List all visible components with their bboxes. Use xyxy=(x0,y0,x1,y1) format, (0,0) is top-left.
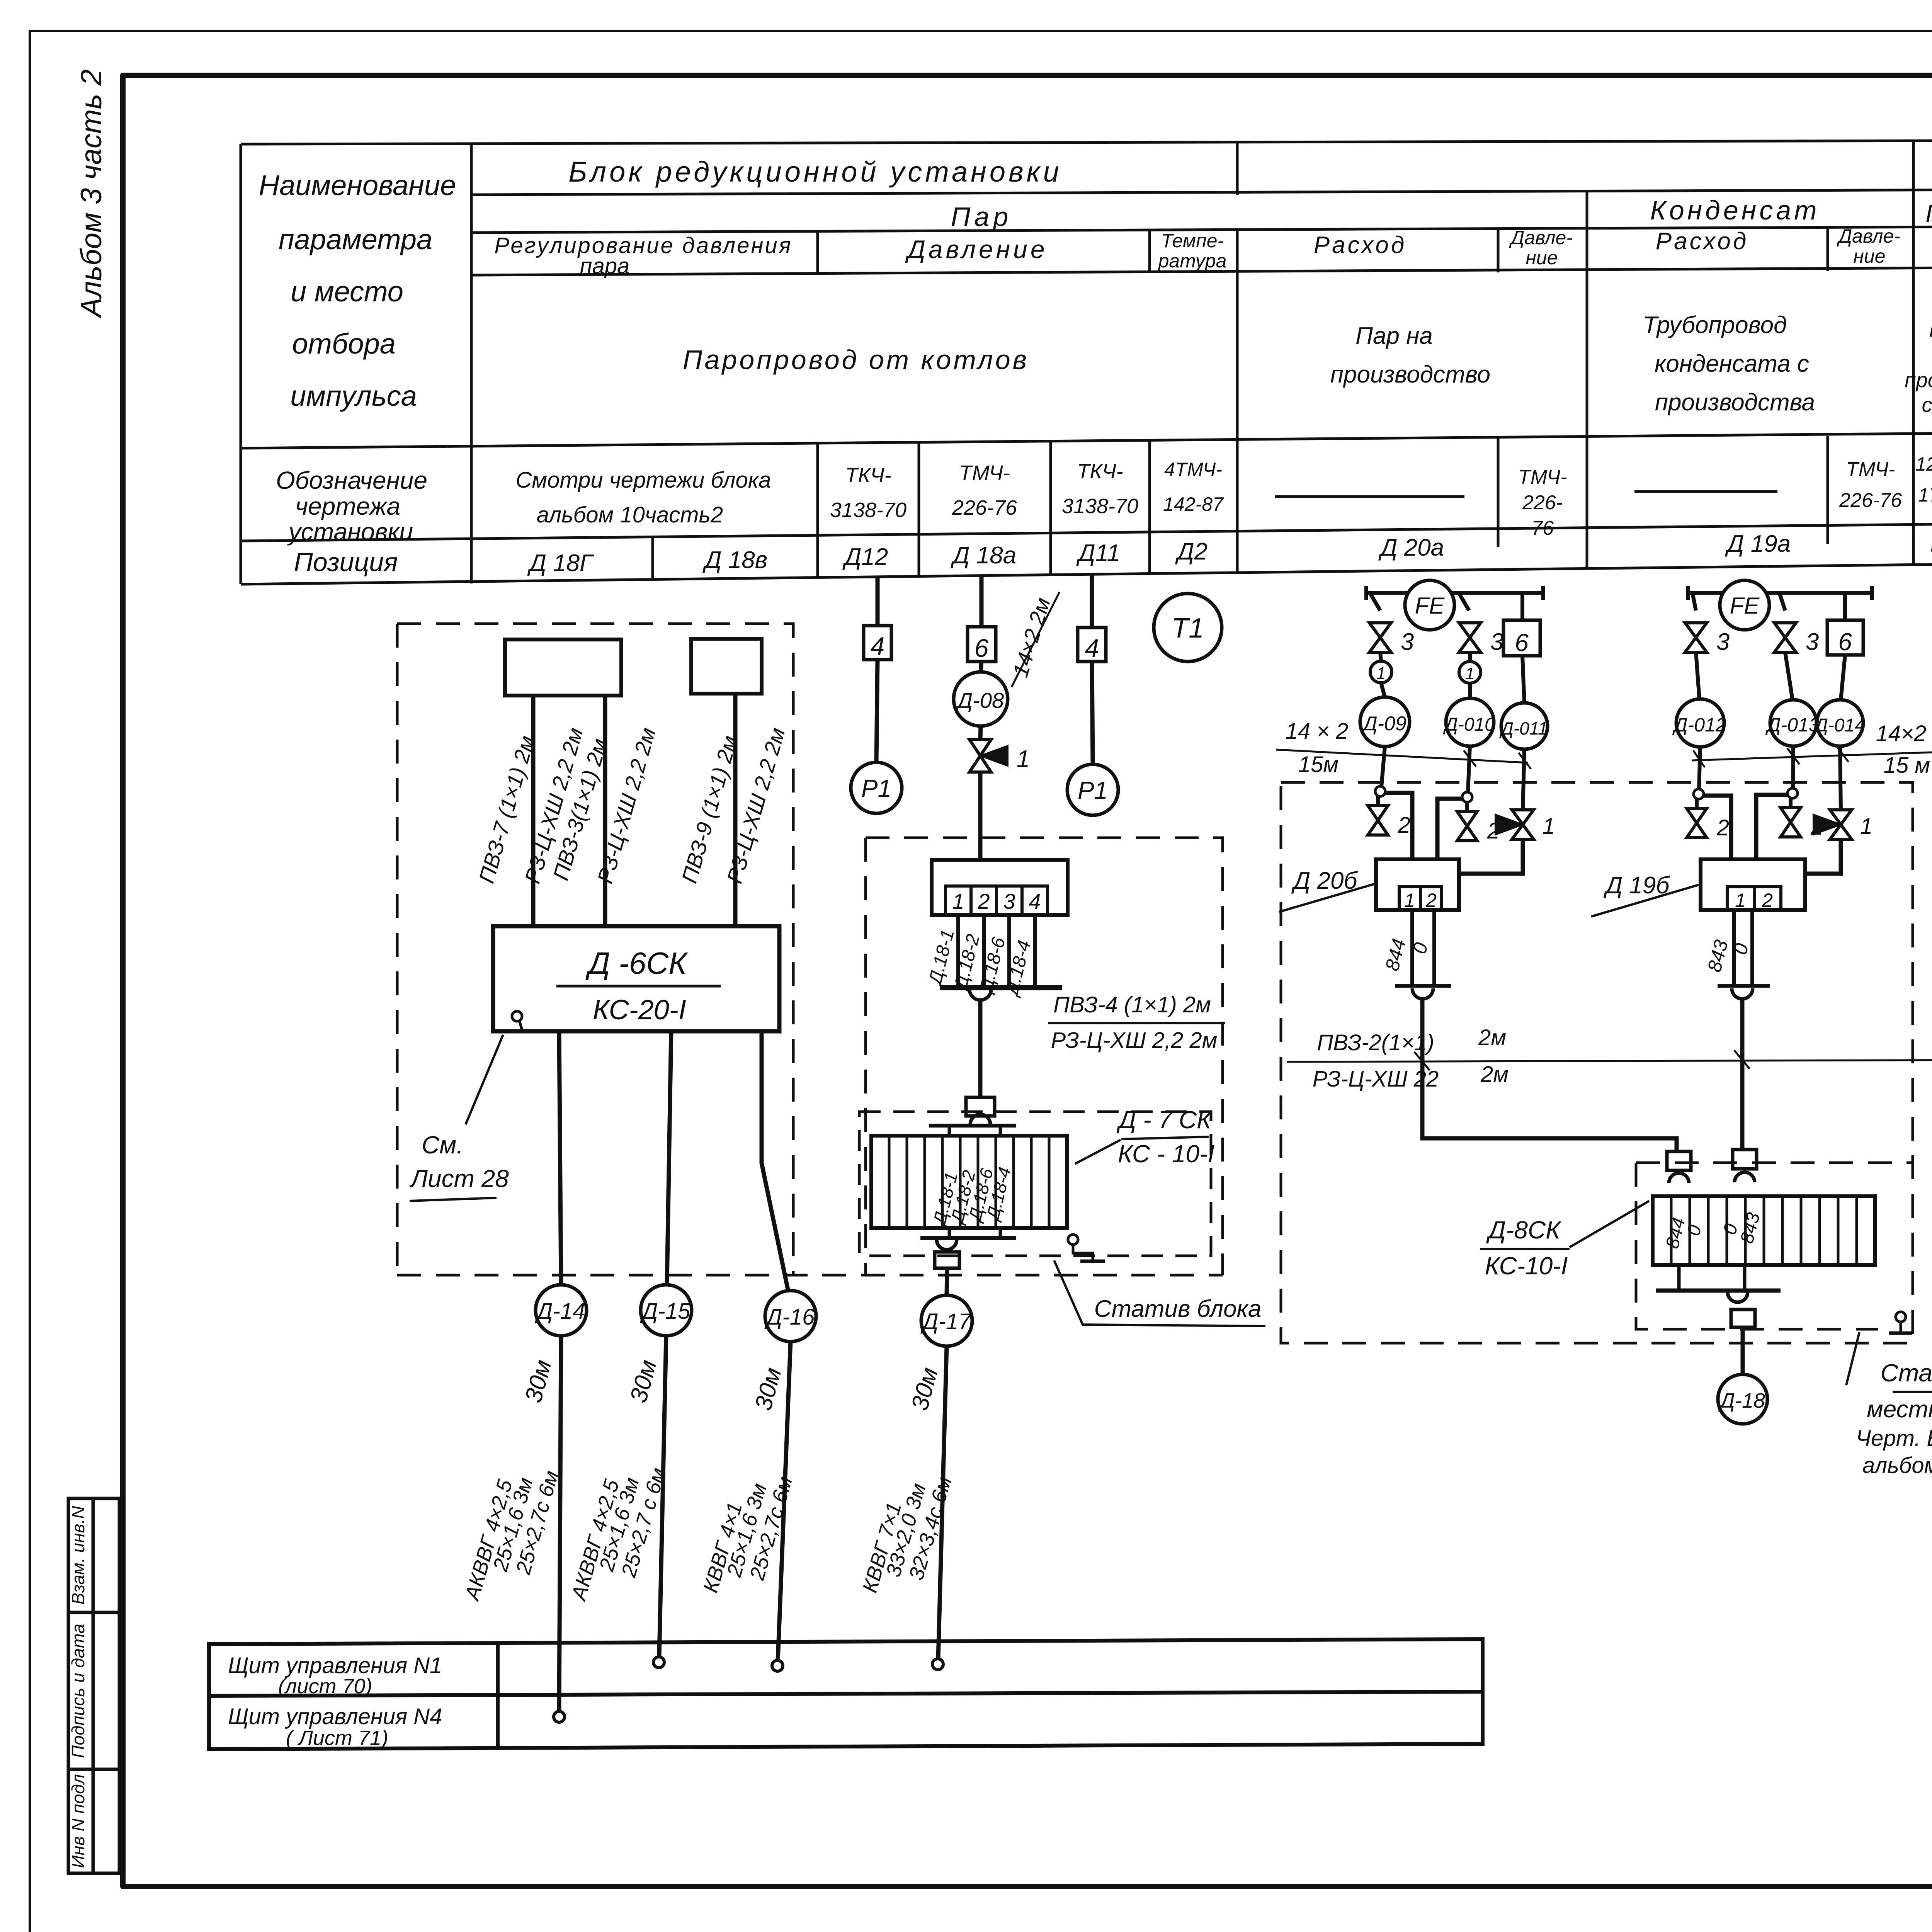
svg-text:2: 2 xyxy=(1716,815,1729,840)
sensor box B xyxy=(691,639,762,694)
valve 2 (Д-010) xyxy=(1465,802,1469,811)
svg-text:Статив: Статив xyxy=(1881,1359,1932,1387)
svg-text:Давле-: Давле- xyxy=(1509,227,1573,248)
svg-text:Д 20б: Д 20б xyxy=(1291,867,1358,894)
impulse tube line (left) xyxy=(1276,750,1528,763)
wire comb to Д-18 xyxy=(1741,1327,1745,1374)
svg-text:Наименование: Наименование xyxy=(259,169,456,201)
wire comb to Д-17 xyxy=(947,1268,947,1295)
svg-text:226-76: 226-76 xyxy=(952,496,1017,519)
wire bar to comb connector xyxy=(978,1000,983,1097)
grounding circle of Д-6СК xyxy=(512,1011,522,1021)
wire to Д-013 xyxy=(1785,652,1793,700)
instrument circle Д-15 xyxy=(641,1285,692,1336)
impulse header bar (Д19а) xyxy=(1688,586,1872,600)
svg-text:КС-10-I: КС-10-I xyxy=(1485,1252,1568,1280)
svg-text:Черт. Б12В715000: Черт. Б12В715000 xyxy=(1856,1426,1932,1451)
svg-text:1: 1 xyxy=(1543,814,1555,839)
junction dot Д-09 line xyxy=(1381,747,1385,787)
svg-text:Регулирование давления: Регулирование давления xyxy=(494,233,792,258)
svg-text:14×2: 14×2 xyxy=(1876,721,1927,746)
svg-text:КС - 10-I: КС - 10-I xyxy=(1118,1140,1215,1168)
junction box 6 (Д20а) xyxy=(1503,620,1540,656)
grounding of Д-8СК xyxy=(1896,1312,1906,1322)
svg-text:производства: производства xyxy=(1655,389,1815,416)
wire Д-6СК to Д-14 xyxy=(559,1031,561,1284)
svg-text:Д-8СК: Д-8СК xyxy=(1486,1216,1561,1244)
wire valve to circle 1 (2) xyxy=(1468,652,1472,662)
junction dot Д-012 xyxy=(1699,747,1700,789)
svg-text:Д11: Д11 xyxy=(1076,540,1120,566)
svg-text:Д -6СК: Д -6СК xyxy=(585,946,688,980)
wire Д-14 to panel N4 xyxy=(559,1336,561,1711)
svg-text:ТКЧ-: ТКЧ- xyxy=(845,464,891,487)
wire box A pin1 to Д-6СК xyxy=(531,696,536,926)
svg-text:226-76: 226-76 xyxy=(1839,489,1902,512)
svg-text:чертежа: чертежа xyxy=(295,492,400,520)
svg-text:Статив блока: Статив блока xyxy=(1094,1296,1262,1322)
valve 1 (three-way after Д-08) xyxy=(969,740,1008,772)
svg-text:Конденсат: Конденсат xyxy=(1650,195,1820,225)
gland bar Д19б xyxy=(1718,984,1770,988)
panel row divider xyxy=(209,1692,1483,1696)
svg-text:3138-70: 3138-70 xyxy=(1062,495,1138,518)
junction box Д19б xyxy=(1701,859,1805,910)
svg-text:3: 3 xyxy=(1490,629,1503,655)
svg-text:15 м: 15 м xyxy=(1884,753,1930,778)
svg-text:параметра: параметра xyxy=(279,223,432,255)
bottom dome xyxy=(1728,1292,1748,1302)
long thin impulse line to Д6 xyxy=(1287,1060,1932,1062)
svg-text:Лист 28: Лист 28 xyxy=(409,1165,509,1192)
junction dot Д-013 xyxy=(1793,746,1793,788)
svg-text:ПВЗ-2(1×1): ПВЗ-2(1×1) xyxy=(1317,1030,1434,1055)
grounding of comb Д-7СК xyxy=(1068,1235,1078,1245)
svg-text:Пар: Пар xyxy=(951,202,1012,232)
four wires from terminals to collector bar xyxy=(958,915,1035,986)
comb connector square xyxy=(966,1097,995,1116)
instrument circle Д-18 xyxy=(1718,1374,1767,1424)
left margin stamp boxes xyxy=(68,1498,119,1873)
svg-text:ТМЧ-: ТМЧ- xyxy=(1846,458,1895,481)
svg-text:Р1: Р1 xyxy=(861,774,891,802)
svg-text:альбом 13: альбом 13 xyxy=(1862,1453,1932,1478)
svg-text:См.: См. xyxy=(422,1131,463,1159)
svg-text:Трубопровод: Трубопровод xyxy=(1643,312,1787,338)
dash in Д19а column xyxy=(1634,490,1777,493)
svg-text:2м: 2м xyxy=(1478,1025,1506,1050)
svg-text:1: 1 xyxy=(952,889,964,913)
instrument circle Д-011 xyxy=(1501,703,1548,749)
svg-text:4: 4 xyxy=(871,632,885,660)
wire valve to terminal box xyxy=(978,772,983,860)
svg-text:Расход: Расход xyxy=(1314,232,1407,259)
row5 dash cell lines xyxy=(1275,492,1777,497)
svg-text:Д-09: Д-09 xyxy=(1361,713,1406,735)
svg-text:4: 4 xyxy=(1029,889,1041,913)
svg-text:2м: 2м xyxy=(1480,1062,1509,1087)
comb body Д-8СК xyxy=(1653,1196,1875,1265)
wire Д-15 to panel N1 xyxy=(659,1336,666,1657)
branch wire Д-09 to Д20б xyxy=(1385,793,1412,859)
comb connector dome xyxy=(970,1114,990,1124)
svg-text:РЗ-Ц-ХШ 2,2 2м: РЗ-Ц-ХШ 2,2 2м xyxy=(1051,1028,1218,1053)
svg-text:4ТМЧ-: 4ТМЧ- xyxy=(1164,459,1222,480)
svg-text:Д 19а: Д 19а xyxy=(1725,531,1791,557)
instrument circle Д-17 xyxy=(921,1295,972,1346)
inner dashed box around Д-7СК xyxy=(859,1112,1211,1256)
wires Д19б to gland xyxy=(1734,910,1752,985)
svg-text:FE: FE xyxy=(1415,593,1445,619)
wire Д-6СК to Д-16 xyxy=(762,1031,788,1291)
svg-text:Д-013: Д-013 xyxy=(1765,714,1819,736)
wire box B to Д-6СК xyxy=(733,694,738,926)
svg-text:Давление: Давление xyxy=(905,235,1048,264)
small circle 1 xyxy=(1370,661,1392,683)
svg-text:отбора: отбора xyxy=(292,328,396,360)
wire from table Д18а xyxy=(980,577,984,627)
svg-text:Взам. инв.N: Взам. инв.N xyxy=(68,1506,88,1605)
svg-text:Щит управления N4: Щит управления N4 xyxy=(228,1704,442,1729)
device Д-6СК box xyxy=(493,926,779,1031)
svg-text:пара: пара xyxy=(580,253,630,279)
comb top rail xyxy=(929,1124,1016,1128)
svg-text:Д 18Г: Д 18Г xyxy=(527,550,594,577)
wire bar to valve3 (left) xyxy=(1370,593,1380,611)
svg-text:Т1: Т1 xyxy=(1172,613,1204,644)
svg-text:Д-08: Д-08 xyxy=(955,688,1004,713)
svg-text:1: 1 xyxy=(1017,746,1030,772)
wire valve to circle 1 xyxy=(1380,652,1381,661)
svg-text:2: 2 xyxy=(977,889,990,913)
svg-text:Инв N подл: Инв N подл xyxy=(68,1774,88,1868)
collector bar xyxy=(940,985,1062,990)
svg-text:Пар: Пар xyxy=(1929,318,1932,342)
wires Д20б to gland xyxy=(1412,910,1434,985)
svg-text:15м: 15м xyxy=(1298,752,1338,777)
sensor box A (top left) xyxy=(505,639,621,696)
junction dot Д-010 line xyxy=(1468,746,1470,792)
branch Д-012 to Д19б xyxy=(1704,796,1731,859)
wire Д-011 down xyxy=(1523,749,1524,810)
comb bottom rail xyxy=(1656,1289,1781,1293)
wire bar to box 6 xyxy=(1520,593,1524,620)
instrument circle Р1 (left) xyxy=(851,762,902,813)
dashed enclosure of reduction unit block xyxy=(397,624,1223,1275)
svg-text:Д-16: Д-16 xyxy=(764,1304,815,1330)
three-way valve 1 (Д-014) xyxy=(1813,810,1852,839)
svg-text:альбом 10часть2: альбом 10часть2 xyxy=(537,502,723,527)
svg-text:142-87: 142-87 xyxy=(1163,493,1224,515)
svg-text:1: 1 xyxy=(1465,664,1475,683)
three-way valve 1 (Д-011) xyxy=(1495,810,1534,839)
svg-text:(лист 70): (лист 70) xyxy=(278,1675,372,1698)
svg-text:Обозначение: Обозначение xyxy=(276,466,427,494)
label Статив местный I xyxy=(1846,1332,1859,1385)
valve 3 (Д-012) xyxy=(1685,623,1707,652)
panel label cell divider xyxy=(496,1643,500,1748)
svg-text:ние: ние xyxy=(1526,247,1558,269)
svg-text:3: 3 xyxy=(1716,629,1730,655)
svg-text:ние: ние xyxy=(1853,245,1885,267)
svg-text:6: 6 xyxy=(975,634,989,662)
wire Д-08 to valve 1 xyxy=(980,726,981,740)
svg-text:импульса: импульса xyxy=(290,380,417,412)
wire from table Д12 xyxy=(876,577,880,626)
svg-text:Д-011: Д-011 xyxy=(1499,718,1548,738)
svg-text:Расход: Расход xyxy=(1656,228,1749,255)
wire bar to box6 (Д19а) xyxy=(1843,593,1847,620)
svg-text:Смотри чертежи блока: Смотри чертежи блока xyxy=(516,468,771,493)
top connector square (right) xyxy=(1733,1150,1757,1169)
instrument circle Д-08 xyxy=(954,672,1008,726)
valve 3 (Д-013) xyxy=(1774,623,1796,652)
svg-text:3: 3 xyxy=(1401,629,1414,655)
wire Д-16 to panel N1 xyxy=(778,1342,791,1660)
svg-text:2: 2 xyxy=(1762,889,1773,911)
svg-text:FE: FE xyxy=(1730,593,1760,619)
svg-text:Р1: Р1 xyxy=(1078,776,1108,804)
svg-text:( Лист 71): ( Лист 71) xyxy=(286,1726,388,1750)
svg-text:ТМЧ-: ТМЧ- xyxy=(959,461,1010,485)
instrument circle Т1 xyxy=(1154,594,1222,662)
svg-text:ТКЧ-: ТКЧ- xyxy=(1077,460,1123,483)
valve 2 (Д-012) xyxy=(1695,799,1699,808)
svg-text:ратура: ратура xyxy=(1158,250,1227,272)
svg-text:3138-70: 3138-70 xyxy=(830,498,906,522)
bottom connector square xyxy=(1731,1310,1755,1327)
svg-text:1: 1 xyxy=(1860,814,1872,839)
wire to Д-010 xyxy=(1468,683,1472,698)
bottom connector square xyxy=(935,1252,959,1268)
dash in Д20а column xyxy=(1275,495,1464,498)
svg-text:2: 2 xyxy=(1398,813,1410,838)
panel box outline xyxy=(209,1639,1483,1749)
svg-text:Давле-: Давле- xyxy=(1837,225,1900,247)
svg-text:1: 1 xyxy=(1404,889,1415,911)
valve 2 (Д-013) xyxy=(1789,798,1793,808)
shared bottom dashed line of left boxes xyxy=(397,1274,1223,1277)
svg-text:Д 19б: Д 19б xyxy=(1604,872,1670,899)
svg-text:Д 18в: Д 18в xyxy=(702,547,767,573)
svg-text:1: 1 xyxy=(1735,889,1746,911)
svg-text:установки: установки xyxy=(287,518,413,546)
svg-text:Д-010: Д-010 xyxy=(1443,714,1495,735)
svg-text:226-: 226- xyxy=(1522,492,1563,514)
cable gland dome xyxy=(969,989,991,1000)
flow element circle FE (2) xyxy=(1720,580,1769,630)
svg-text:14 × 2: 14 × 2 xyxy=(1286,719,1349,744)
svg-text:и место: и место xyxy=(291,276,403,308)
wire bar to valve3 (mid) xyxy=(1459,593,1469,611)
wire box6 to Д-014 xyxy=(1841,655,1845,700)
wire bar to valve3 (Д-013) xyxy=(1779,593,1785,611)
svg-text:2: 2 xyxy=(1425,889,1437,911)
instrument circle Д-16 xyxy=(765,1291,816,1342)
wire valve1 to Д19б xyxy=(1805,839,1841,874)
junction box Д20б xyxy=(1376,859,1459,910)
branch wire Д-010 to Д20б xyxy=(1437,799,1462,859)
svg-text:РЗ-Ц-ХШ 22: РЗ-Ц-ХШ 22 xyxy=(1313,1066,1439,1092)
wire to Д-012 xyxy=(1696,652,1699,699)
svg-text:Д-014: Д-014 xyxy=(1813,715,1865,736)
instrument circle Д-014 xyxy=(1817,700,1863,746)
instrument circle Д-010 xyxy=(1446,698,1494,746)
gland bar Д20б xyxy=(1395,984,1451,988)
wire Д-6СК to Д-15 xyxy=(667,1031,671,1284)
wire box6 to Д-08 xyxy=(981,662,981,672)
wire bar to valve3 (Д-012) xyxy=(1692,593,1696,611)
svg-text:местный I: местный I xyxy=(1867,1396,1932,1423)
comb bottom rail xyxy=(920,1236,1016,1240)
svg-text:76: 76 xyxy=(1531,517,1554,539)
instrument circle Д-013 xyxy=(1770,700,1816,746)
svg-text:конденсата с: конденсата с xyxy=(1655,350,1809,377)
junction box 4 (Д11) xyxy=(1078,628,1106,662)
svg-text:Подпись и дата: Подпись и дата xyxy=(68,1624,88,1758)
wire Д-17 to panel N1 xyxy=(938,1346,947,1659)
bottom gland dome xyxy=(937,1240,957,1250)
svg-text:Д 20а: Д 20а xyxy=(1378,534,1444,561)
svg-text:Д 18а: Д 18а xyxy=(951,542,1016,569)
svg-text:Блок редукционной установки: Блок редукционной установки xyxy=(568,156,1062,188)
table outline and horizontals xyxy=(241,140,1932,144)
svg-text:Д-18: Д-18 xyxy=(1718,1389,1765,1412)
junction box 4 (Д12) xyxy=(864,626,891,660)
top connector square (left) xyxy=(1667,1151,1691,1170)
instrument circle Д-012 xyxy=(1676,699,1724,747)
branch Д-013 to Д19б xyxy=(1756,795,1787,859)
svg-text:Д2: Д2 xyxy=(1175,538,1207,565)
wire from table Д11 xyxy=(1090,575,1094,628)
label Статив блока xyxy=(1054,1260,1265,1326)
svg-text:Д-15: Д-15 xyxy=(640,1299,690,1324)
svg-text:ТМЧ-: ТМЧ- xyxy=(1518,466,1567,488)
junction box 6 (Д19а) xyxy=(1827,620,1863,655)
instrument circle Д-09 xyxy=(1360,697,1410,747)
instrument circle Д-14 xyxy=(536,1285,587,1336)
valve 2 (Д-09) xyxy=(1376,796,1380,806)
svg-text:3: 3 xyxy=(1003,889,1015,913)
svg-text:Темпе-: Темпе- xyxy=(1161,230,1224,252)
svg-text:ПВЗ-4 (1×1) 2м: ПВЗ-4 (1×1) 2м xyxy=(1053,992,1211,1017)
svg-text:1: 1 xyxy=(1376,664,1386,683)
wire box4 to Р1 (right) xyxy=(1092,662,1093,764)
wire Д20б gland to comb Д-8СК xyxy=(1422,998,1677,1151)
svg-text:Позиция: Позиция xyxy=(294,548,398,577)
wire valve1 to Д20б xyxy=(1459,839,1523,874)
junction box 6 (Д18а) xyxy=(968,627,996,662)
svg-text:Пар на: Пар на xyxy=(1355,323,1433,349)
wire box6 to Д-011 xyxy=(1522,656,1524,703)
svg-text:производ: производ xyxy=(1905,369,1932,392)
svg-text:6: 6 xyxy=(1838,628,1852,656)
svg-text:КС-20-I: КС-20-I xyxy=(593,995,686,1026)
svg-text:174-87: 174-87 xyxy=(1918,484,1932,506)
svg-text:Д - 7 СК: Д - 7 СК xyxy=(1116,1106,1213,1134)
svg-text:6: 6 xyxy=(1515,629,1529,656)
svg-text:Д-012: Д-012 xyxy=(1672,714,1726,736)
svg-text:Пар: Пар xyxy=(1925,200,1932,228)
terminal box of block (1 2 3 4) xyxy=(932,860,1068,915)
table verticals xyxy=(240,144,242,584)
wire box4 to Р1 xyxy=(876,660,878,762)
valve 3 (Д-010 line) xyxy=(1459,623,1481,652)
svg-text:Альбом 3 часть 2: Альбом 3 часть 2 xyxy=(75,69,108,318)
terminal comb Д-7СК xyxy=(871,1136,1067,1228)
wire box A pin2 to Д-6СК xyxy=(603,696,607,926)
valve 3 (Д-09 line) xyxy=(1369,623,1391,652)
impulse header bar (Д20а) xyxy=(1366,586,1543,600)
svg-text:4: 4 xyxy=(1085,634,1099,662)
wire Д19б gland to comb xyxy=(1740,998,1745,1150)
svg-text:Д-14: Д-14 xyxy=(535,1299,585,1324)
wire Д-014 down xyxy=(1840,746,1841,810)
flow element circle FE xyxy=(1405,580,1454,630)
svg-text:Д12: Д12 xyxy=(842,544,888,570)
small circle 1 (2) xyxy=(1459,662,1481,683)
instrument circle Р1 (2) xyxy=(1067,764,1118,815)
svg-text:Паропровод от котлов: Паропровод от котлов xyxy=(683,345,1029,375)
wire to Д-09 xyxy=(1381,683,1385,697)
svg-text:ство: ство xyxy=(1922,393,1932,417)
svg-text:Д-17: Д-17 xyxy=(920,1309,972,1334)
svg-text:12ТМЧ-: 12ТМЧ- xyxy=(1915,453,1932,475)
svg-text:3: 3 xyxy=(1806,629,1819,655)
svg-text:производство: производство xyxy=(1330,361,1490,388)
